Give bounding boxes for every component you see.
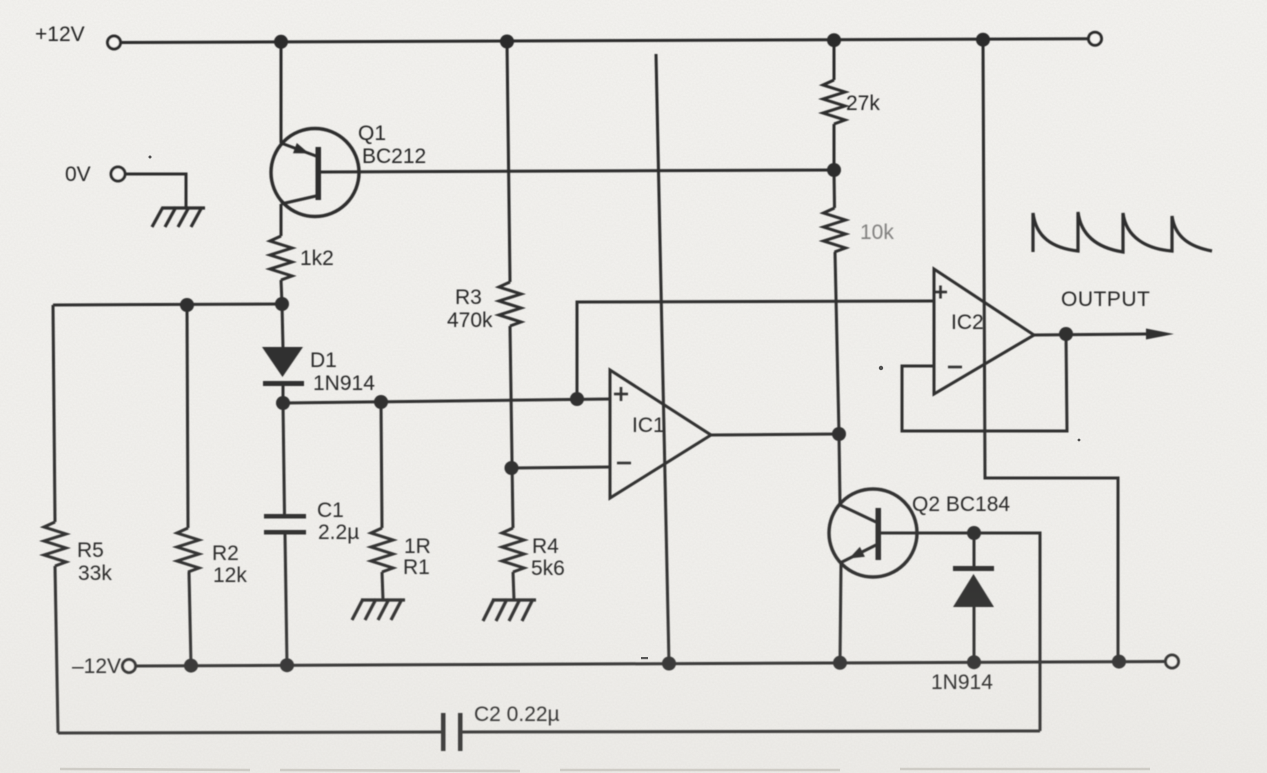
label R4 value 5k6 [531,557,565,580]
wire rail to R3 [507,42,510,283]
label R3 value 470k [447,309,493,332]
label D1 [310,349,337,372]
wire -12V rail [136,662,1165,667]
label R5 [77,539,104,562]
terminal top right open [1089,32,1102,45]
wire bottom loop right [463,731,1041,732]
wire IC1 output [711,434,839,435]
label 10k [860,221,894,244]
capacitor C2 [441,713,463,751]
resistor R3 [499,282,521,326]
junction rail-R3 [500,35,514,49]
junction IC1 minus node [505,461,519,475]
wire junction to 10k [833,170,837,208]
transistor Q1 [271,129,359,217]
wire IC1 plus node to IC2 plus input [577,301,934,399]
label BC212 [362,145,426,168]
junction IC1 output [832,427,846,441]
resistor 27k [823,80,845,124]
resistor R1 [371,528,393,572]
wire Q1 collector to 1k2 [280,204,283,236]
wire IC1 output node to Q2 collector [839,434,840,503]
wire R1 to ground [382,572,383,600]
terminal -12V [123,660,136,673]
wire R5 branch [53,305,55,522]
junction R2 top [180,298,194,312]
label R4 [532,535,559,558]
terminal 0V [111,167,125,181]
junction rail-Q1 [274,35,288,49]
label R5 value 33k [78,562,112,585]
label R1 value 1R [404,535,431,558]
junction rail-27k [827,33,841,47]
label Q2 BC184 [912,493,1010,516]
junction rail-C1 [280,658,294,672]
wire rail to Q1 emitter [280,42,283,143]
wire R1 branch [381,402,382,528]
wire 10k to IC1 output node [835,252,839,434]
label C1 [317,499,344,522]
wire Q2 base to bottom loop [881,533,1040,731]
wire R4 to ground [513,572,514,600]
junction IC2 output [1059,327,1073,341]
wire node A horizontal [53,304,282,305]
junction node A [275,297,289,311]
wire +12V rail [121,39,1088,43]
junction D1 bottom [276,396,290,410]
junction rail-D2 [967,655,981,669]
terminal -12V right open [1166,655,1179,668]
diode D2 [953,533,994,662]
junction rail-long line [662,657,676,671]
wire 1k2 to node A [281,280,282,304]
label R2 value 12k [213,564,247,587]
junction Q2 base-D2 [967,526,981,540]
ground G0 [152,207,205,227]
op-amp IC1 [610,370,711,498]
label D1 1N914 [313,372,375,395]
wire R2 to -12V rail [189,572,191,666]
label IC2 [951,311,984,334]
wire IC1 minus input [512,467,611,468]
wire IC2 feedback loop [902,334,1067,431]
output arrowhead [1146,329,1174,340]
wire D1 to IC1 plus input [283,399,610,403]
wire R3 to R4 [510,326,513,528]
junction IC1 plus node [570,392,584,406]
transistor Q2 [829,489,917,577]
sawtooth waveform [1033,212,1212,252]
capacitor C1 [264,403,306,665]
wire long vertical line [656,54,669,664]
wire Q1 base to 27k/10k junction [321,170,834,172]
node -12V label [72,655,121,678]
junction rail-IC2 line [1112,655,1126,669]
ground G2 [483,599,536,621]
diode D1 [262,304,304,403]
junction rail-Q2 emitter [833,656,847,670]
resistor R2 [177,528,199,572]
wire R5 to bottom loop [55,566,58,733]
wire 0V to ground [125,174,186,208]
node 0V label [65,163,91,186]
wire Q2 emitter to -12V rail [840,564,841,663]
resistor R4 [502,528,524,572]
label C1 value 2.2u [318,521,359,544]
resistor 1k2 [270,236,292,280]
label 1k2 [300,247,334,270]
junction rail-R2 [184,659,198,673]
op-amp IC2 [934,269,1034,394]
label C2 value [474,703,560,726]
junction 27k-10k-Q1base [827,163,841,177]
wire rail down through IC2 to -12V rail [983,40,1118,662]
terminal +12V [108,36,121,49]
label 27k [846,92,880,115]
label IC1 [632,414,665,437]
wire 27k branch [833,40,836,80]
node +12V label [35,23,85,46]
wire R2 branch [187,305,188,528]
label R1 [403,556,430,579]
label OUTPUT [1061,288,1150,311]
wire 27k to 10k junction [833,124,836,170]
ground G1 [352,599,405,620]
resistor 10k [824,208,846,252]
junction R1 top [374,395,388,409]
wire IC2 output [1034,334,1148,335]
label R2 [212,542,239,565]
wire bottom loop [58,732,441,733]
label D2 1N914 [931,671,993,694]
label R3 [455,286,482,309]
junction rail-IC2 line [976,33,990,47]
resistor R5 [44,522,66,566]
label Q1 [358,122,386,145]
